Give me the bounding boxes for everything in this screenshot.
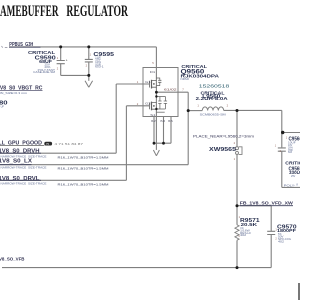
svg-text:R16_1W70_B10TR=1.5MM: R16_1W70_B10TR=1.5MM bbox=[58, 182, 110, 186]
svg-text:REGULATOR: REGULATOR bbox=[66, 3, 128, 20]
svg-text:402: 402 bbox=[278, 240, 285, 243]
svg-text:XW9565: XW9565 bbox=[209, 147, 236, 153]
svg-text:2.2UH-8.0A: 2.2UH-8.0A bbox=[196, 96, 229, 101]
svg-text:FB_1V8_SO_VFD_XW: FB_1V8_SO_VFD_XW bbox=[240, 201, 294, 206]
svg-text:61/02: 61/02 bbox=[164, 88, 177, 92]
svg-text:25V: 25V bbox=[291, 175, 296, 178]
svg-text:402: 402 bbox=[240, 234, 247, 237]
svg-text:D1: D1 bbox=[150, 70, 156, 74]
svg-text:UF: UF bbox=[1, 105, 5, 109]
svg-text:AMEBUFFER: AMEBUFFER bbox=[0, 3, 59, 20]
svg-text:NARROW-TRACE SIZE-TRACE: NARROW-TRACE SIZE-TRACE bbox=[1, 182, 47, 185]
svg-text:603: 603 bbox=[288, 151, 293, 154]
svg-text:MIN_SIZE=0.3 mm: MIN_SIZE=0.3 mm bbox=[0, 91, 28, 95]
svg-text:NARROW-TRACE SIZE-TRACE: NARROW-TRACE SIZE-TRACE bbox=[1, 166, 47, 169]
svg-text:+: + bbox=[66, 58, 68, 62]
svg-text:65: 65 bbox=[168, 119, 174, 123]
svg-text:G1: G1 bbox=[145, 80, 151, 84]
svg-text:62: 62 bbox=[151, 119, 157, 123]
svg-text:CASE-D2E-SM: CASE-D2E-SM bbox=[33, 70, 55, 74]
svg-text:1V8_S0_LX: 1V8_S0_LX bbox=[0, 158, 33, 164]
svg-text:NARROW-TRACE SIZE-TRACE: NARROW-TRACE SIZE-TRACE bbox=[1, 155, 47, 158]
svg-text:CRITIC: CRITIC bbox=[285, 161, 300, 166]
svg-text:PPBUS_G3H: PPBUS_G3H bbox=[9, 42, 33, 48]
svg-text:1V8_S0_DRVL: 1V8_S0_DRVL bbox=[0, 176, 40, 182]
svg-text:POLY-: POLY- bbox=[284, 183, 296, 187]
svg-text:CRITICAL: CRITICAL bbox=[28, 50, 55, 55]
svg-text:SCMB0635-SM: SCMB0635-SM bbox=[200, 113, 227, 117]
svg-text:63: 63 bbox=[160, 119, 166, 123]
svg-text:S1: S1 bbox=[150, 113, 156, 117]
svg-text:1V8_S0_DRVH: 1V8_S0_DRVH bbox=[0, 149, 40, 155]
svg-text:4 71 51 84 87: 4 71 51 84 87 bbox=[55, 142, 84, 146]
svg-text:R16_1W70_B10TR=1.5MM: R16_1W70_B10TR=1.5MM bbox=[58, 166, 110, 170]
svg-text:R16_1W70_B10TR=1.5MM: R16_1W70_B10TR=1.5MM bbox=[58, 155, 110, 159]
svg-text:PLACE_NEAR=L9560,2=3mm: PLACE_NEAR=L9560,2=3mm bbox=[193, 135, 254, 139]
svg-text:1V8_SO_VFB: 1V8_SO_VFB bbox=[0, 256, 25, 261]
svg-text:NPAR: NPAR bbox=[181, 77, 189, 81]
svg-text:15260518: 15260518 bbox=[199, 83, 230, 88]
svg-text:603-1: 603-1 bbox=[95, 66, 104, 69]
svg-text:G2: G2 bbox=[145, 102, 151, 106]
